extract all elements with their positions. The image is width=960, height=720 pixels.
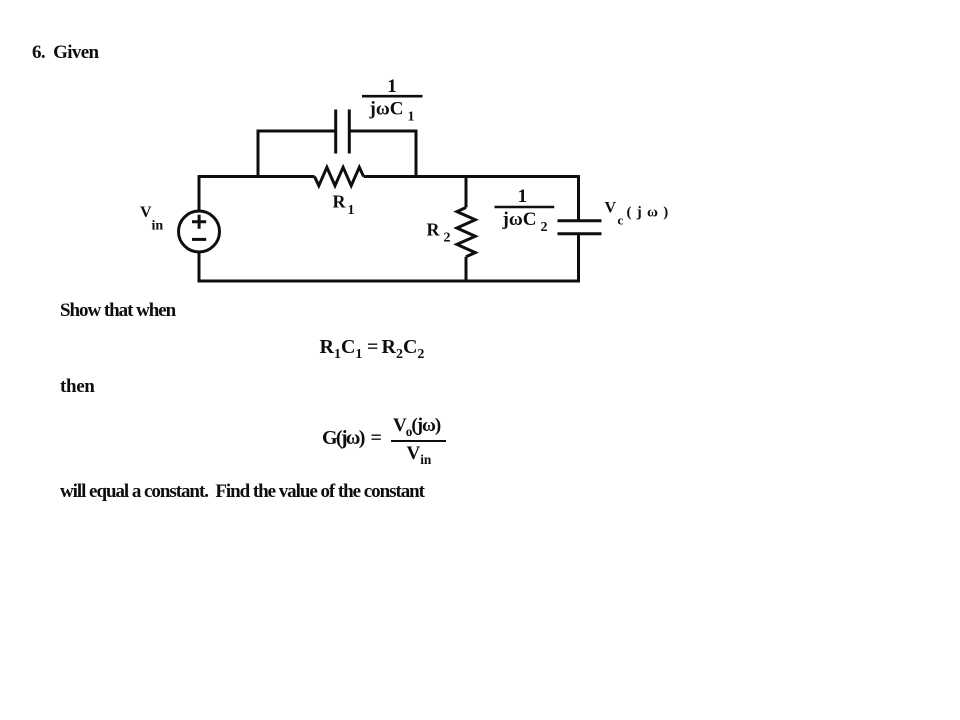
minus sign of source: [192, 238, 206, 241]
wire: top main horizontal right of R1: [364, 175, 579, 178]
label R2: [427, 220, 451, 246]
source Vin circle: [179, 211, 220, 252]
wire: R2 branch bottom: [465, 257, 468, 283]
label R1: [333, 192, 355, 219]
label Vin: [140, 204, 163, 234]
wire: C1 loop top-left horizontal: [257, 130, 336, 133]
svg-text:R: R: [333, 192, 347, 212]
wire: C1 loop left vertical: [257, 130, 260, 178]
wire: from source bottom to bottom rail: [198, 252, 201, 282]
wire: C1 loop right vertical: [415, 130, 418, 178]
resistor R1: [315, 167, 364, 185]
text line "Show that when": [60, 300, 175, 322]
wire: bottom rail: [198, 280, 580, 283]
wire: left branch from main wire down to source: [198, 175, 201, 211]
wire: R2 branch top: [465, 175, 468, 207]
wire: from C2 to bottom rail: [577, 234, 580, 283]
svg-text:V: V: [605, 200, 617, 217]
wire: C1 loop top-right horizontal: [349, 130, 417, 133]
fraction bar of 1/jwC2: [495, 206, 555, 209]
heading "6. Given": [32, 42, 98, 64]
label jwC2 (denominator): [502, 209, 548, 235]
numerator Vo(jw): [393, 415, 440, 437]
text line "then": [60, 376, 95, 398]
plus sign of source: [192, 215, 206, 229]
resistor R2: [457, 208, 475, 257]
svg-text:R: R: [427, 220, 441, 240]
svg-text:2: 2: [444, 231, 451, 246]
svg-text:c: c: [618, 213, 624, 228]
label jwC1 (denominator): [369, 99, 415, 125]
label Vc(jw): [605, 200, 671, 228]
capacitor C1 plates: [336, 110, 350, 154]
capacitor C2 plates: [558, 221, 602, 234]
equation R1C1 = R2C2: [320, 336, 363, 359]
fraction bar of 1/jwC1: [362, 95, 423, 98]
wire: top main horizontal left of R1: [199, 175, 315, 178]
svg-text:1: 1: [408, 110, 415, 125]
svg-text:2: 2: [541, 220, 548, 235]
svg-text:V: V: [140, 204, 152, 221]
fraction bar: [391, 440, 447, 443]
label 1 (numerator of 1/jwC2): [518, 186, 528, 207]
svg-text:1: 1: [518, 186, 528, 207]
label 1 (numerator of 1/jwC1): [387, 76, 397, 97]
denominator Vin: [407, 443, 432, 465]
svg-text:1: 1: [387, 76, 397, 97]
wire: right branch from main wire to C2: [577, 175, 580, 221]
svg-text:( j ω ): ( j ω ): [627, 205, 671, 221]
equation G(jw) = Vo(jw)/Vin: [322, 427, 364, 450]
text line "will equal a constant.": [60, 481, 424, 503]
svg-text:1: 1: [348, 203, 355, 218]
svg-text:jωC: jωC: [369, 99, 404, 120]
svg-text:jωC: jωC: [502, 209, 537, 230]
svg-text:in: in: [152, 219, 164, 234]
